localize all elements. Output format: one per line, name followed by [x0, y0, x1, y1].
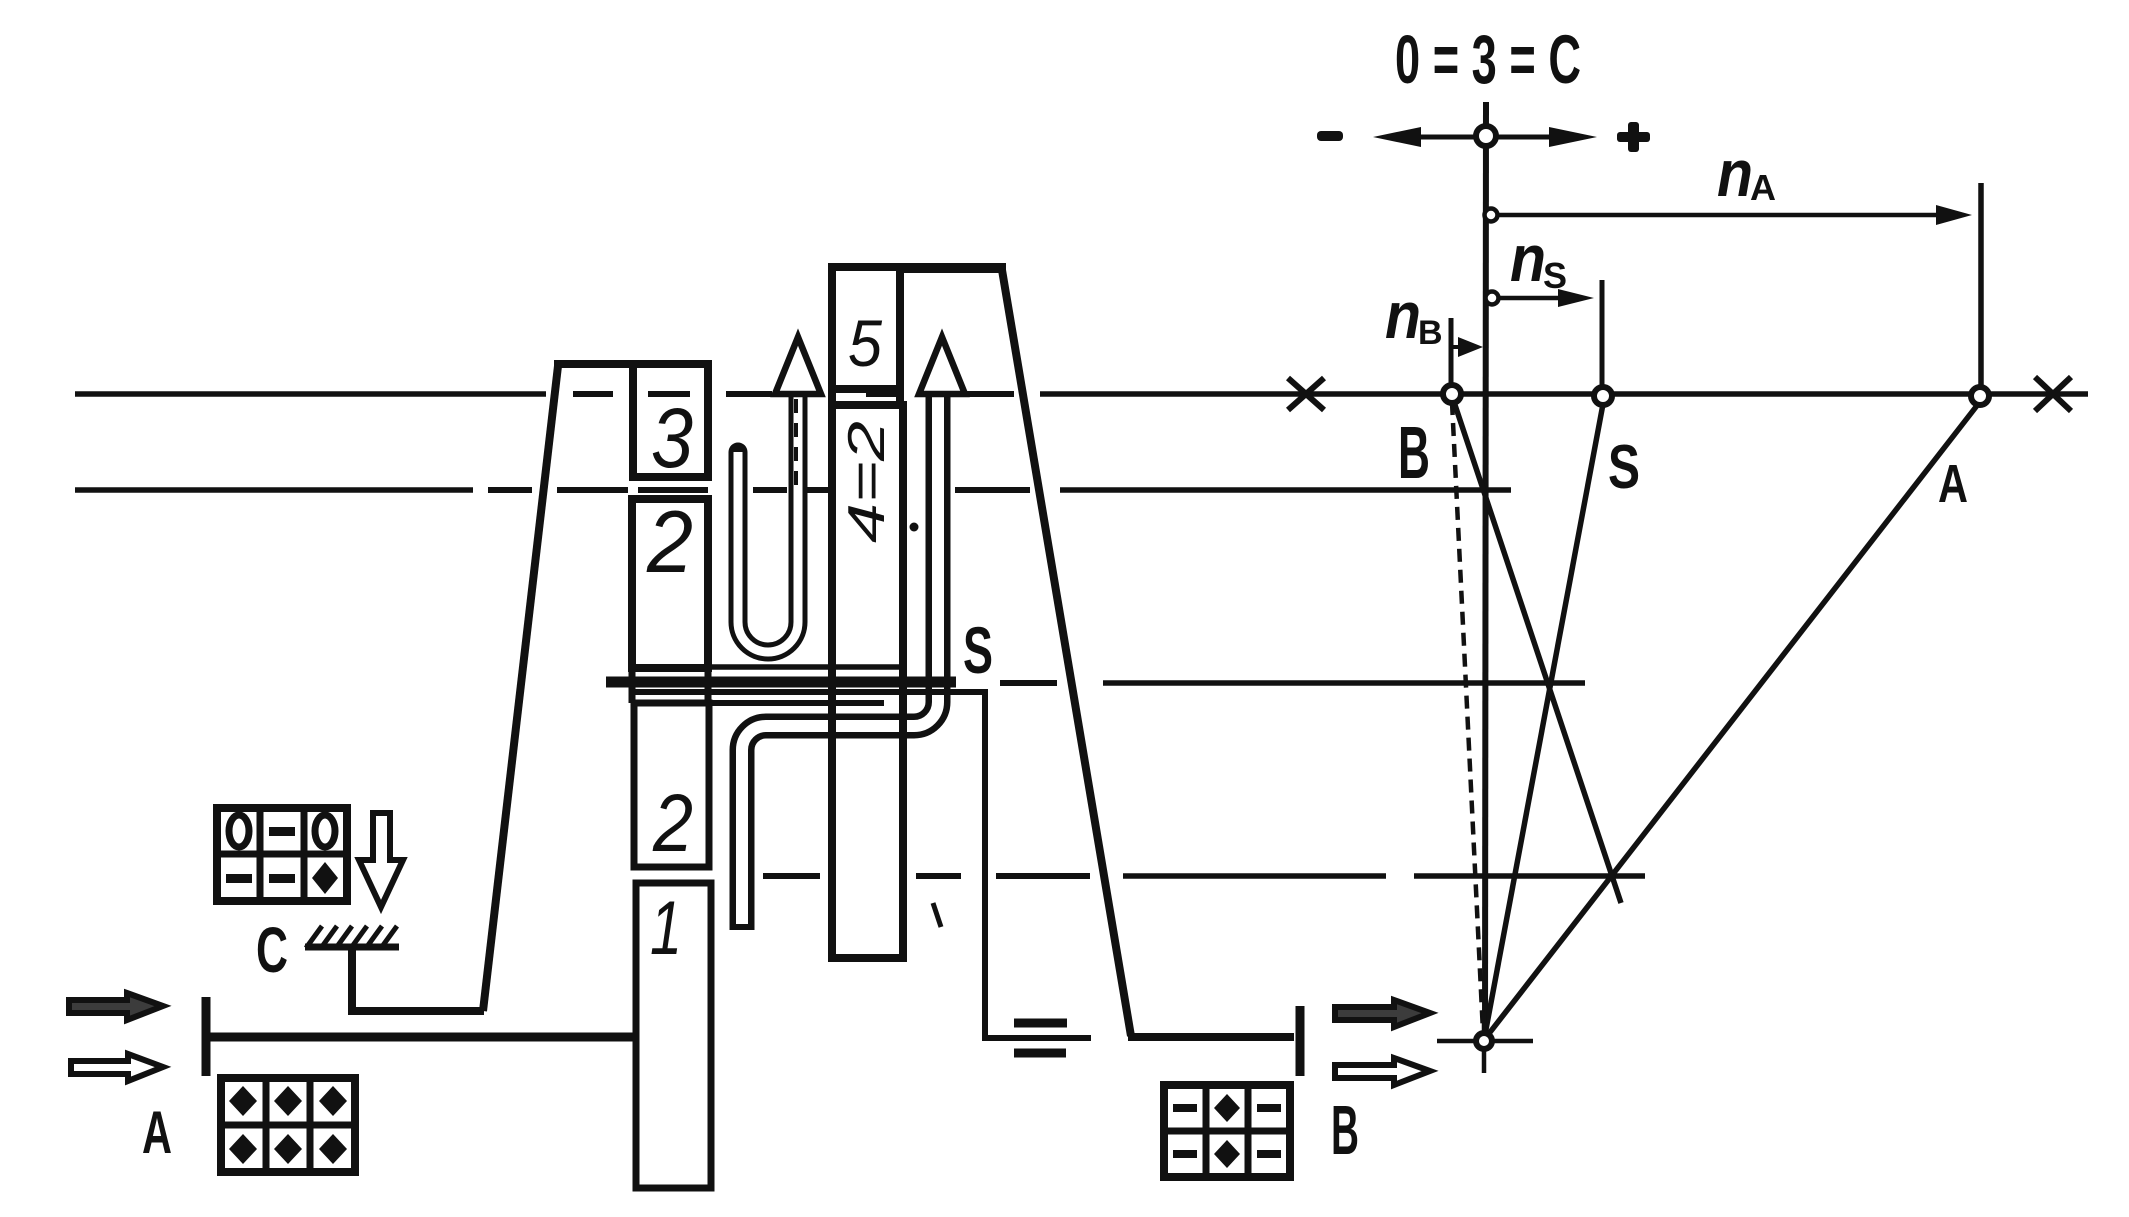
origin arrows [1419, 135, 1552, 140]
axis solid segment [1040, 391, 2088, 397]
svg-text:S: S [1608, 433, 1640, 502]
gear box 4=2 [832, 405, 903, 958]
node nS start [1486, 292, 1499, 305]
shaft A input line [203, 997, 640, 1076]
svg-text:4=2: 4=2 [838, 421, 896, 543]
dimension nS [1491, 280, 1602, 390]
ground hatching C [305, 926, 399, 948]
right tower frame [828, 268, 1300, 1076]
ray pole to B dashed [1452, 402, 1483, 1032]
carrier S heavy bar [606, 677, 956, 688]
svg-text:0 = 3 = C: 0 = 3 = C [1395, 21, 1581, 98]
node B [1443, 385, 1461, 403]
svg-text:n: n [1717, 136, 1753, 210]
node A [1971, 387, 1989, 405]
svg-text:n: n [1385, 278, 1421, 352]
axis dash line 3 [1000, 680, 1057, 686]
stray dot [910, 523, 919, 532]
node nA start [1485, 209, 1498, 222]
node S [1594, 387, 1612, 405]
arrow head up 2 [919, 337, 965, 394]
stray tick [933, 903, 941, 927]
dimension nB [1451, 318, 1462, 392]
input arrow hollow A [71, 1054, 163, 1081]
dimension nA [1491, 183, 1981, 396]
sun tube S-pipe [742, 394, 938, 930]
output arrow filled B [1335, 1000, 1430, 1027]
dash centerline stub [794, 399, 798, 495]
gear box 5 [832, 267, 900, 389]
down arrow at C [359, 813, 403, 907]
table B [1164, 1085, 1290, 1177]
node pole [1476, 1033, 1492, 1049]
X mark right [2035, 377, 2071, 411]
input arrow filled A [69, 993, 163, 1020]
left tower frame [483, 364, 712, 1011]
axis dash line 2 [75, 487, 473, 493]
svg-text:S: S [1543, 255, 1567, 296]
svg-text:A: A [1938, 454, 1968, 514]
minus sign [1317, 131, 1343, 141]
svg-text:3: 3 [651, 391, 693, 485]
X mark left [1288, 378, 1324, 410]
svg-text:A: A [1750, 167, 1776, 208]
carrier ground marks [1014, 1023, 1067, 1053]
arrow head up 1 [775, 337, 821, 394]
svg-text:C: C [256, 914, 288, 986]
gear box 3 [633, 364, 708, 477]
table A [221, 1078, 355, 1172]
line B member [1452, 396, 1621, 903]
svg-text:B: B [1331, 1091, 1359, 1169]
svg-text:B: B [1398, 411, 1430, 494]
svg-text:A: A [142, 1099, 172, 1166]
carrier S plate lines [632, 664, 899, 703]
pole cross ticks [1437, 1012, 1533, 1073]
svg-text:1: 1 [650, 886, 682, 971]
carrier S lower plate over tubes [634, 692, 1091, 1038]
ray pole to A [1484, 403, 1979, 1040]
output arrow hollow B [1335, 1058, 1430, 1085]
axis dash line 4 [763, 873, 820, 879]
gear box 4=2 border redraw [832, 405, 903, 958]
svg-text:B: B [1418, 314, 1443, 352]
axis dash line 1 [75, 391, 546, 397]
table C [217, 808, 347, 901]
plus sign [1617, 122, 1650, 152]
svg-text:n: n [1510, 221, 1546, 295]
ray pole to S [1484, 404, 1603, 1040]
svg-text:2: 2 [646, 492, 693, 591]
svg-text:2: 2 [652, 778, 693, 869]
gear box 2 lower [634, 703, 709, 867]
gear box 2 upper [632, 499, 708, 668]
zero line vertical [1485, 102, 1486, 1040]
svg-text:5: 5 [848, 306, 882, 380]
gear box 1 [636, 883, 711, 1188]
node origin [1476, 126, 1496, 146]
planet tube U [738, 396, 798, 652]
link C to ground [352, 950, 484, 1011]
svg-text:S: S [963, 613, 993, 687]
